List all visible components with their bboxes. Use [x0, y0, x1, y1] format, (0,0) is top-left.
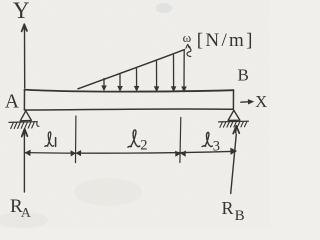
load arrow 5 — [173, 55, 175, 88]
length l1 label — [45, 132, 54, 146]
length l2 label — [128, 130, 140, 147]
load arrow 3 — [136, 68, 138, 88]
support B roller triangle — [228, 110, 240, 120]
reaction R_B arrow — [231, 134, 237, 194]
x axis arrow — [241, 101, 251, 104]
load arrow 2 — [119, 74, 121, 88]
support B hatching — [220, 121, 247, 127]
support A hatching — [11, 122, 39, 129]
support A ground line — [9, 121, 37, 124]
Y axis arrow — [24, 31, 26, 88]
dim left arrowhead — [25, 150, 30, 155]
dim right arrowhead — [231, 148, 237, 154]
tick arrows at l1/l2 — [71, 151, 75, 156]
load right edge arrow — [183, 50, 185, 88]
extension line at l2/l3 — [179, 118, 182, 163]
faint smudge bottom middle — [74, 178, 142, 206]
leader squiggle from w to load apex — [187, 47, 191, 57]
length l3 label — [202, 132, 212, 146]
faint smudge top middle — [156, 3, 172, 13]
distributed load w: sloped top line — [78, 50, 185, 89]
support B ground line — [219, 120, 249, 123]
extension line at l1/l2 — [75, 116, 77, 163]
tick arrows at l2/l3 — [176, 151, 181, 156]
load arrow 1 — [103, 79, 105, 88]
support A pin triangle — [20, 111, 31, 121]
dimension line — [25, 151, 236, 153]
faint smudge bottom left — [0, 212, 48, 228]
reaction R_A arrow — [23, 134, 25, 192]
beam outline — [25, 90, 234, 92]
load arrow 4 — [156, 61, 158, 88]
